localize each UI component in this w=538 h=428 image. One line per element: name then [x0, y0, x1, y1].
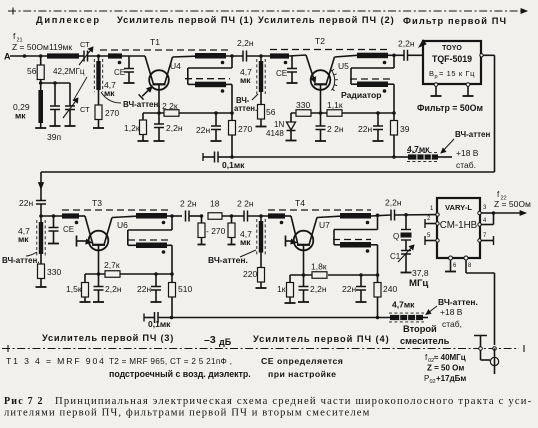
pin 2 stub — [436, 222, 439, 225]
ferrite bead 4,7мк stage3 — [39, 222, 43, 254]
resistor 270 pad right — [231, 216, 233, 223]
svg-text:2 2н: 2 2н — [327, 124, 344, 134]
filter ground pin left — [434, 83, 438, 87]
transformer T4 primary bar — [340, 213, 371, 219]
transformer T1 secondary bar — [185, 78, 230, 80]
svg-text:Усилитель первой ПЧ (1): Усилитель первой ПЧ (1) — [117, 15, 254, 25]
svg-text:02: 02 — [430, 379, 436, 385]
svg-text:дБ: дБ — [219, 337, 232, 347]
svg-text:2,2н: 2,2н — [310, 284, 327, 294]
feedback vertical stage3 — [167, 244, 172, 246]
resistor 270 stage1 supply — [231, 113, 233, 121]
resistor 270 stage1 input — [98, 90, 100, 105]
filter output wire — [480, 54, 483, 57]
svg-text:Т1 3 4 = MRF 904: Т1 3 4 = MRF 904 — [6, 356, 106, 366]
svg-text:U5: U5 — [338, 61, 349, 71]
feedback vertical stage2 — [388, 83, 394, 85]
feedback vertical stage1 — [226, 83, 232, 85]
emitter rail stage1 — [143, 112, 164, 114]
capacitor 22н stage3 — [155, 274, 157, 287]
shield dashed T1 — [100, 49, 230, 51]
emitter wire U5 — [320, 84, 322, 113]
collector wire U5 — [326, 57, 334, 84]
transistor U5 — [311, 70, 331, 90]
capacitor 2,2н emitter stage2 — [320, 113, 322, 126]
svg-text:мк: мк — [15, 111, 26, 121]
label ВЧ-аттен lower supply — [426, 306, 437, 315]
svg-text:при настройке: при настройке — [268, 369, 336, 379]
capacitor 39п — [54, 83, 56, 106]
resistor 330 stage3 — [40, 254, 42, 264]
svg-text:Радиатор: Радиатор — [341, 90, 382, 100]
svg-text:1N: 1N — [274, 120, 284, 129]
svg-text:Т2: Т2 — [315, 36, 325, 46]
svg-text:37,8: 37,8 — [412, 268, 429, 278]
filter box TOYO TQF-5019 — [423, 41, 481, 84]
svg-text:22н: 22н — [137, 284, 151, 294]
resistor 1,5к — [84, 274, 86, 283]
ferrite bead 4,7мк supply rail top — [392, 155, 396, 159]
svg-text:мк: мк — [18, 234, 29, 244]
shield dashed T4 — [268, 209, 371, 211]
wire into base — [285, 215, 291, 217]
svg-text:СЕ определяется: СЕ определяется — [261, 356, 343, 366]
capacitor 2,2н series stage4-mixer — [390, 210, 392, 221]
wire input A — [10, 55, 47, 57]
svg-text:смеситель: смеситель — [400, 336, 450, 346]
svg-text:Q: Q — [393, 232, 399, 241]
svg-text:Т1: Т1 — [150, 37, 160, 47]
trimmer capacitor CT series — [83, 51, 85, 62]
svg-text:ВЧ-аттен.: ВЧ-аттен. — [123, 100, 161, 109]
capacitor 2,2н series stage1-2 — [242, 51, 244, 62]
svg-text:56: 56 — [266, 107, 276, 117]
svg-text:1,5к: 1,5к — [66, 284, 82, 294]
svg-text:ТQF-5019: ТQF-5019 — [432, 54, 472, 64]
svg-text:39: 39 — [400, 124, 410, 134]
ground — [93, 127, 104, 129]
capacitor 22н stage1 — [215, 113, 217, 126]
svg-text:Фильтр первой ПЧ: Фильтр первой ПЧ — [403, 16, 507, 26]
svg-text:39п: 39п — [47, 132, 61, 142]
pin 8 LO — [464, 256, 468, 260]
svg-text:= 15 к Гц: = 15 к Гц — [439, 69, 475, 78]
filter ground pin right — [466, 83, 470, 87]
top boundary chain line — [8, 10, 527, 12]
svg-text:Второй: Второй — [403, 324, 437, 334]
wire output node stage4 — [371, 215, 391, 216]
svg-text:мк: мк — [240, 75, 251, 85]
emitter rail stage3 — [85, 273, 105, 275]
svg-text:+17дБм: +17дБм — [436, 374, 466, 383]
wire top rail lower section — [41, 171, 495, 173]
resistor 1к — [289, 275, 291, 283]
inductor 0,29мк — [40, 83, 42, 90]
svg-text:стаб,: стаб, — [442, 319, 462, 329]
svg-text:+18 В: +18 В — [440, 307, 463, 317]
svg-text:1к: 1к — [277, 284, 286, 294]
capacitor 2,2н emitter stage4 — [303, 275, 305, 287]
winding input bar stage2 — [270, 53, 289, 58]
inductor 119мк — [47, 53, 79, 58]
resistor 1,8к — [312, 272, 327, 279]
capacitor 2,2н series pad-stage4 — [243, 211, 245, 222]
wire into base — [306, 55, 315, 83]
capacitor 2,2н emitter stage1 — [158, 113, 160, 124]
resistor 220 — [260, 253, 262, 268]
svg-text:U6: U6 — [117, 220, 128, 230]
emitter wire U4 — [158, 84, 160, 113]
svg-text:+18 В: +18 В — [456, 148, 479, 158]
node stage4 input — [259, 214, 263, 218]
emitter wire U7 — [303, 245, 305, 275]
emitter rail stage4 — [290, 274, 312, 276]
svg-text:Т4: Т4 — [295, 198, 305, 208]
svg-text:СМ-1НВ: СМ-1НВ — [440, 220, 478, 231]
svg-text:2,2н: 2,2н — [166, 123, 183, 133]
wire into base — [79, 215, 85, 217]
svg-text:18: 18 — [210, 199, 220, 209]
svg-text:4,7мк: 4,7мк — [392, 300, 415, 310]
transistor U4 — [149, 70, 169, 90]
pin 3 output — [478, 211, 481, 214]
svg-text:ТОYО: ТОYО — [442, 45, 462, 52]
capacitor 22н stage4 — [360, 275, 362, 287]
svg-text:С1: С1 — [390, 252, 401, 261]
heatsink symbol — [331, 70, 335, 91]
svg-text:лителями первой ПЧ, фильтрами: лителями первой ПЧ, фильтрами первой ПЧ … — [4, 408, 370, 419]
resistor 1,2к — [142, 113, 144, 120]
wire — [79, 55, 84, 57]
svg-text:119мк: 119мк — [49, 42, 72, 52]
ferrite bead 4,7мк stage1 — [96, 61, 100, 90]
svg-text:330: 330 — [47, 267, 61, 277]
capacitor CE stage2 — [291, 56, 293, 69]
svg-text:СЕ: СЕ — [114, 68, 125, 77]
svg-text:СТ: СТ — [80, 105, 90, 114]
feedback loop wires stage1 — [231, 56, 233, 68]
svg-text:U7: U7 — [319, 220, 330, 230]
node pad left — [200, 214, 204, 218]
emitter tap stub stage3 — [76, 236, 78, 247]
capacitor 2,2н series stage3-pad — [185, 211, 187, 222]
svg-text:4148: 4148 — [266, 129, 284, 138]
svg-text:2,2н: 2,2н — [237, 38, 254, 48]
svg-text:Усилитель первой ПЧ (4): Усилитель первой ПЧ (4) — [253, 334, 390, 344]
feedback loop wires stage2 — [393, 55, 395, 68]
label ВЧ-аттен stage3 — [26, 252, 37, 256]
transformer T3 primary bar — [136, 213, 167, 219]
supply rail stage1-2 — [232, 156, 394, 158]
pin 7 stub — [478, 239, 481, 242]
emitter tap stub stage4 — [285, 236, 287, 247]
resistor 2,7к — [105, 271, 120, 278]
pointer line to trimmer CT — [73, 77, 87, 101]
svg-text:–3: –3 — [204, 334, 216, 346]
svg-text:СЕ: СЕ — [276, 69, 287, 78]
winding input bar stage1 — [108, 53, 122, 58]
crystal Q — [405, 215, 407, 230]
svg-text:42,2МГц: 42,2МГц — [53, 67, 85, 76]
svg-text:Рис 7 2: Рис 7 2 — [4, 396, 44, 407]
capacitor 2,2н emitter stage3 — [98, 274, 100, 287]
svg-text:ВЧ-аттен.: ВЧ-аттен. — [208, 255, 248, 265]
resistor 18 — [208, 213, 222, 220]
transformer T2 secondary bar — [350, 78, 390, 80]
svg-text:Т2 = MRF 965, СТ = 2 5 21пФ: Т2 = MRF 965, СТ = 2 5 21пФ , — [109, 357, 232, 366]
svg-text:ВЧ-аттен.: ВЧ-аттен. — [438, 297, 478, 307]
resistor 1,1к — [327, 110, 342, 117]
capacitor CE stage3 — [53, 216, 55, 228]
label ВЧ-аттен stage4 — [240, 250, 256, 257]
ground — [35, 127, 46, 129]
capacitor 22н input lower — [36, 200, 46, 202]
label ВЧ-аттен stage1 — [101, 92, 121, 103]
winding input bar stage3 — [62, 213, 79, 218]
trimmer capacitor CT shunt — [69, 83, 71, 106]
wire into base — [145, 56, 153, 84]
svg-text:2 2к: 2 2к — [162, 101, 178, 111]
svg-text:330: 330 — [296, 100, 310, 110]
svg-text:VARY-L: VARY-L — [445, 203, 472, 212]
svg-text:2 2н: 2 2н — [237, 199, 254, 209]
svg-text:Z = 50 Ом: Z = 50 Ом — [427, 364, 464, 373]
capacitor CE stage1 — [128, 56, 130, 69]
svg-text:- 270 -: - 270 - — [206, 226, 231, 236]
ferrite bead 4,7мк stage4 — [259, 221, 263, 253]
feedback loop wires stage4 — [377, 215, 379, 229]
svg-text:4,7мк: 4,7мк — [407, 144, 430, 154]
svg-text:2,2н: 2,2н — [385, 198, 402, 208]
wire — [122, 55, 145, 57]
label ВЧ-аттен stage2 — [252, 94, 258, 100]
resistor 240 — [377, 275, 379, 283]
svg-text:1,2к: 1,2к — [124, 123, 140, 133]
wire output node stage1 — [226, 55, 243, 57]
node crystal — [404, 213, 408, 217]
svg-text:22н: 22н — [19, 198, 33, 208]
mixer box VARY-L CM-1HB — [437, 198, 480, 258]
wire — [88, 55, 109, 57]
svg-text:аттен.: аттен. — [234, 104, 257, 113]
wire left drop with arrow — [40, 172, 42, 201]
wire output node stage2 — [388, 54, 404, 56]
resistor 56 stage2 — [260, 92, 262, 105]
LO connector circle — [479, 347, 483, 351]
node stage3 input — [39, 214, 43, 218]
svg-text:2,2н: 2,2н — [398, 39, 415, 49]
svg-text:мк: мк — [240, 237, 251, 247]
emitter wire U6 — [98, 245, 100, 274]
pin 6 ground — [449, 256, 453, 260]
wire output node stage3 — [167, 215, 182, 217]
svg-text:2 2н: 2 2н — [180, 199, 197, 209]
LO connector T stub — [474, 335, 487, 337]
svg-text:Диплексер: Диплексер — [36, 15, 101, 25]
svg-text:22н: 22н — [342, 284, 356, 294]
svg-text:270: 270 — [105, 108, 119, 118]
diode 1N4148 — [290, 113, 292, 122]
svg-text:стаб.: стаб. — [456, 160, 476, 170]
svg-text:СЕ: СЕ — [63, 225, 74, 234]
capacitor 2,2н series stage2-filter — [403, 50, 405, 61]
shield dashed T3 — [62, 209, 172, 211]
collector wire U6 — [104, 218, 112, 245]
label ВЧ-аттен supply — [441, 139, 454, 153]
bottom chain line — [2, 348, 519, 350]
shield dashed T2 — [270, 49, 390, 51]
collector wire — [165, 57, 173, 84]
svg-text:р: р — [435, 74, 438, 80]
svg-text:1,1к: 1,1к — [327, 100, 343, 110]
node pad right — [230, 214, 234, 218]
svg-text:22н: 22н — [196, 125, 210, 135]
trimmer C1 — [401, 250, 411, 252]
svg-text:270: 270 — [238, 124, 252, 134]
svg-text:Z = 50Ом: Z = 50Ом — [494, 199, 531, 209]
ferrite bead 4,7мк lower rail — [390, 315, 423, 320]
svg-text:22н: 22н — [358, 124, 372, 134]
svg-text:2,7к: 2,7к — [104, 260, 120, 270]
feedback loop wires stage3 — [171, 216, 173, 230]
feedback vertical stage4 — [371, 244, 378, 246]
pin 4 stub — [478, 223, 481, 226]
svg-text:56: 56 — [27, 66, 37, 76]
svg-text:Принципиальная электрическая с: Принципиальная электрическая схема средн… — [55, 396, 532, 407]
svg-text:Усилитель первой ПЧ (2): Усилитель первой ПЧ (2) — [258, 15, 395, 25]
svg-text:ВЧ-аттен.: ВЧ-аттен. — [2, 256, 40, 265]
svg-text:510: 510 — [178, 284, 192, 294]
svg-text:Т3: Т3 — [92, 198, 102, 208]
output arrow f22 — [492, 211, 496, 215]
resistor 2,2к — [164, 110, 179, 117]
resistor 39 — [393, 113, 395, 121]
svg-text:0,1мк: 0,1мк — [222, 160, 245, 170]
pin 5 stub — [436, 239, 439, 242]
ferrite bead 4,7мк stage2 — [259, 61, 263, 92]
transformer T1 primary bar — [195, 53, 226, 59]
transistor U6 — [89, 231, 109, 251]
svg-text:В: В — [429, 69, 434, 78]
capacitor 0,1мк stage1 rail — [202, 153, 204, 161]
emitter rail stage2 — [291, 112, 327, 114]
node after trimmer — [97, 54, 101, 58]
svg-text:0,1мк: 0,1мк — [148, 319, 171, 329]
svg-text:А: А — [4, 52, 11, 62]
transformer T3 secondary bar — [128, 239, 170, 241]
node diplexer — [39, 81, 43, 85]
supply rail lower 0,1мк — [143, 314, 145, 322]
svg-text:СТ: СТ — [80, 40, 90, 49]
resistor 330 stage2 — [296, 110, 311, 117]
svg-text:Усилитель первой ПЧ (3): Усилитель первой ПЧ (3) — [42, 333, 174, 343]
svg-text:мк: мк — [104, 88, 115, 98]
svg-text:Z = 50Ом: Z = 50Ом — [12, 42, 49, 52]
svg-text:≈ 40МГц: ≈ 40МГц — [434, 353, 466, 362]
wire — [289, 55, 306, 56]
svg-text:240: 240 — [383, 284, 397, 294]
svg-text:МГц: МГц — [409, 278, 428, 289]
capacitor 22н stage2 — [377, 113, 379, 126]
transformer T4 secondary bar — [333, 239, 371, 241]
svg-text:220: 220 — [243, 269, 257, 279]
svg-text:Фильтр = 50Ом: Фильтр = 50Ом — [417, 103, 483, 113]
svg-text:2,2н: 2,2н — [105, 284, 122, 294]
svg-text:ВЧ-аттен: ВЧ-аттен — [455, 130, 490, 139]
resistor 270 pad left — [201, 216, 203, 223]
svg-text:1,8к: 1,8к — [311, 262, 327, 272]
pin 1 — [436, 213, 439, 216]
winding input bar stage4 — [268, 213, 285, 218]
collector wire U7 — [309, 218, 317, 245]
svg-text:подстроечный с возд. диэлектр.: подстроечный с возд. диэлектр. — [109, 369, 251, 379]
transistor U7 — [294, 231, 314, 251]
resistor 56 vertical branch — [40, 56, 42, 65]
resistor 510 — [171, 274, 173, 283]
emitter arrow stroke — [142, 87, 152, 97]
node stage2 input — [259, 54, 263, 58]
transformer T2 primary bar — [357, 53, 388, 59]
